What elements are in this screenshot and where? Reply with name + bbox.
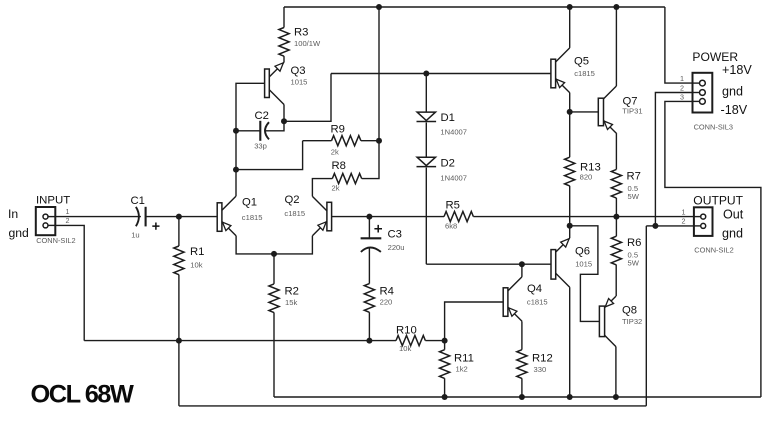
resistor R7 (611, 169, 621, 198)
svg-text:gnd: gnd (722, 227, 743, 241)
resistor R9 (332, 136, 361, 146)
wire R7 bottom to output node (615, 198, 617, 217)
svg-text:CONN-SIL2: CONN-SIL2 (36, 236, 75, 245)
svg-text:820: 820 (580, 173, 593, 182)
capacitor C3 (361, 238, 382, 252)
wire Q6 collector riser (569, 226, 571, 238)
svg-text:gnd: gnd (9, 226, 29, 240)
wire C3 top lead (368, 217, 370, 239)
capacitor C2 (260, 121, 269, 141)
wire Q1 emitter down (236, 236, 274, 254)
svg-text:10k: 10k (190, 261, 202, 270)
wire Q6 base line (426, 263, 551, 265)
wire Q4 collector riser to Q6 base node (521, 264, 523, 277)
wire bottom gnd rail (179, 405, 646, 407)
wire R8 left lead to Q2 collector (312, 179, 332, 197)
junction negative rail / Q6 emitter (567, 394, 573, 400)
junction gnd line / R1 bottom (176, 338, 182, 344)
resistor R5 (444, 212, 473, 222)
wire R12 bottom to negative rail (521, 378, 523, 397)
resistor R12 (517, 350, 527, 379)
wire Q2 base to C3 node and R5 (332, 216, 444, 218)
wire negative supply rail (274, 396, 761, 398)
junction negative rail / R11 (442, 394, 448, 400)
svg-text:OUTPUT: OUTPUT (693, 194, 743, 208)
diode D2 (417, 157, 437, 166)
svg-text:R1: R1 (190, 246, 204, 258)
svg-text:2k: 2k (332, 183, 340, 192)
svg-text:5W: 5W (628, 258, 640, 267)
svg-text:220: 220 (380, 297, 393, 306)
wire R9 left lead (303, 140, 332, 142)
svg-text:R5: R5 (446, 199, 460, 211)
svg-text:D2: D2 (441, 157, 455, 169)
wire R11 bottom to negative rail (444, 378, 446, 397)
svg-text:6k8: 6k8 (445, 221, 457, 230)
transistor Q5 (551, 48, 570, 93)
svg-text:1u: 1u (131, 230, 139, 239)
wire Q1 collector column to Q3 base (236, 83, 265, 196)
junction top rail / R9 column (376, 4, 382, 10)
wire Q8 emitter to negative rail (615, 347, 617, 397)
resistor R13 (565, 157, 575, 186)
junction negative rail / Q8 emitter (613, 394, 619, 400)
svg-text:1: 1 (682, 207, 686, 216)
svg-text:In: In (8, 207, 18, 221)
svg-text:330: 330 (534, 365, 547, 374)
junction R10 right / R11 / Q4 base (442, 338, 448, 344)
svg-text:R8: R8 (332, 160, 346, 172)
svg-text:R11: R11 (454, 352, 474, 364)
transistor Q3 (265, 62, 284, 104)
svg-text:Q2: Q2 (285, 194, 300, 206)
wire R10 node riser to Q4 base (445, 302, 504, 341)
junction top rail / Q7 collector (613, 4, 619, 10)
capacitor C1 (136, 207, 146, 227)
svg-text:Out: Out (723, 207, 744, 221)
wire D2 to Q6 base line (425, 168, 427, 265)
junction R13 / Q6 collector / Q8 path (567, 223, 573, 229)
svg-text:R10: R10 (396, 324, 417, 336)
wire output node to R6 (615, 217, 617, 237)
wire Q7 collector to rail (615, 7, 617, 86)
wire node to C2 left plate (236, 130, 260, 132)
wire Q4 emitter to R12 (521, 321, 523, 349)
svg-text:R4: R4 (380, 285, 394, 297)
svg-text:2: 2 (680, 84, 684, 93)
svg-text:3: 3 (680, 93, 684, 102)
wire R4 bottom lead (368, 312, 370, 340)
svg-text:TIP32: TIP32 (622, 317, 642, 326)
resistor R10 (396, 336, 425, 346)
wire Q6 emitter down to negative rail (569, 287, 571, 397)
svg-text:c1815: c1815 (242, 213, 263, 222)
wire Q7 emitter to R7 (615, 134, 617, 170)
svg-text:POWER: POWER (692, 50, 738, 64)
svg-text:R13: R13 (580, 161, 601, 173)
transistor Q2 (312, 196, 331, 235)
wire gnd node to OUTPUT pin2 (655, 225, 694, 227)
svg-text:R9: R9 (331, 124, 345, 136)
svg-text:33p: 33p (254, 141, 267, 150)
svg-text:R2: R2 (285, 285, 299, 297)
wire R13 bottom to Q6 node (569, 186, 571, 226)
junction R9 right / R8 column (376, 138, 382, 144)
svg-text:1: 1 (66, 207, 70, 216)
wire Q5 collector to rail (569, 7, 571, 48)
wire INPUT pin2 gnd stub (55, 225, 84, 340)
transistor Q8 (599, 296, 616, 346)
diode D1 (417, 112, 437, 121)
svg-text:15k: 15k (285, 298, 297, 307)
svg-text:220u: 220u (388, 243, 405, 252)
wire C2 node to VAS riser (284, 74, 331, 122)
svg-text:10k: 10k (399, 344, 411, 353)
svg-text:Q8: Q8 (622, 304, 637, 316)
wire INPUT pin1 to C1 (55, 216, 141, 218)
transistor Q4 (503, 277, 522, 321)
svg-text:2k: 2k (331, 147, 339, 156)
svg-text:-18V: -18V (721, 103, 748, 117)
svg-text:R7: R7 (627, 170, 641, 182)
wire gnd node to gnd rail riser (646, 225, 655, 227)
junction gnd line / R4 bottom (366, 338, 372, 344)
junction Q6 base / Q4 collector (519, 261, 525, 267)
transistor Q1 (217, 196, 236, 236)
svg-text:1: 1 (680, 74, 684, 83)
resistor R8 (332, 174, 361, 184)
svg-text:gnd: gnd (722, 84, 743, 98)
wire R1 bottom / gnd drop to bottom gnd rail (178, 275, 180, 406)
svg-text:Q4: Q4 (527, 283, 542, 295)
wire Q3 emitter to C2 node (283, 105, 285, 122)
svg-text:Q1: Q1 (242, 197, 257, 209)
svg-text:C2: C2 (255, 110, 269, 122)
connector INPUT CONN-SIL2 (36, 207, 56, 235)
svg-text:TIP31: TIP31 (622, 106, 642, 115)
svg-text:Q6: Q6 (575, 245, 590, 257)
wire R13 top lead (569, 112, 571, 157)
wire C1 to Q1 base (146, 216, 218, 218)
junction diff pair emitters (271, 251, 277, 257)
wire Q2 emitter down (274, 236, 312, 254)
svg-text:OCL 68W: OCL 68W (31, 381, 134, 409)
wire output node to OUTPUT pin1 (616, 216, 694, 218)
svg-text:D1: D1 (441, 112, 455, 124)
wire C2 node stub down to C2 right plate (265, 121, 284, 131)
svg-text:Q5: Q5 (574, 55, 589, 67)
wire POWER pin2 gnd drop (655, 93, 692, 226)
wire R2 bottom to negative rail (273, 313, 275, 398)
wire VAS line to Q5 base (331, 73, 551, 75)
junction Q5 emitter / Q7 base / R13 (567, 109, 573, 115)
wire R9 node to R8 right lead (362, 141, 379, 179)
svg-text:1k2: 1k2 (456, 365, 468, 374)
wire Q6 node to Q8 base path (570, 226, 600, 322)
svg-text:1N4007: 1N4007 (440, 128, 467, 137)
wire R3 bottom to Q3 collector kink (283, 56, 285, 62)
svg-text:c1815: c1815 (284, 209, 305, 218)
junction C2 left / Q1 collector column (233, 128, 239, 134)
svg-text:C1: C1 (131, 195, 145, 207)
connector POWER CONN-SIL3 (693, 73, 713, 113)
wire node to Q7 base (570, 111, 599, 113)
svg-text:c1815: c1815 (574, 69, 595, 78)
wire R9 right lead to node (361, 140, 379, 142)
svg-text:1015: 1015 (291, 77, 308, 86)
junction R9 left / Q1 collector column (233, 167, 239, 173)
resistor R6 (611, 236, 621, 265)
transistor Q7 (598, 86, 617, 134)
wire node to R9 left lead (236, 141, 303, 170)
junction C1 / R1 node (176, 214, 182, 220)
wire R3 top lead (283, 7, 285, 28)
wire R10 right lead to node (425, 340, 444, 342)
svg-text:1N4007: 1N4007 (440, 173, 467, 182)
resistor R1 (174, 246, 184, 275)
plus sign C3 (374, 225, 382, 233)
wire D1 top lead (425, 74, 427, 113)
svg-text:5W: 5W (628, 192, 640, 201)
svg-text:R3: R3 (294, 27, 308, 39)
wire top +18V rail (284, 6, 665, 8)
wire top rail riser to R9/R8 node (378, 7, 380, 141)
junction top rail / Q5 collector (567, 4, 573, 10)
connector OUTPUT CONN-SIL2 (694, 207, 713, 236)
svg-text:R6: R6 (627, 237, 641, 249)
wire R2 top lead (273, 254, 275, 284)
wire -18V feed right edge (665, 101, 761, 397)
wire gnd horizontal to R10 node (84, 340, 396, 342)
resistor R11 (440, 350, 450, 379)
svg-text:1015: 1015 (575, 260, 592, 269)
wire R6 bottom to Q8 collector (615, 265, 617, 296)
resistor R2 (269, 284, 279, 313)
junction Q3 emitter / C2 node (281, 118, 287, 124)
svg-text:INPUT: INPUT (36, 195, 70, 207)
svg-text:C3: C3 (388, 228, 402, 240)
wire gnd rail riser to output gnd (645, 226, 647, 406)
svg-text:R12: R12 (532, 352, 553, 364)
svg-text:CONN-SIL2: CONN-SIL2 (694, 246, 733, 255)
wire C3 bottom to R4 (368, 248, 370, 284)
junction D1 top / VAS line (423, 71, 429, 77)
resistor R3 (279, 28, 289, 57)
wire R5 to output node (473, 216, 616, 218)
wire Q5 emitter to node (569, 93, 571, 112)
wire R1 top lead (178, 217, 180, 246)
junction R7 R6 output node (613, 214, 619, 220)
svg-text:2: 2 (682, 217, 686, 226)
plus sign C1 (152, 223, 159, 230)
svg-text:2: 2 (66, 216, 70, 225)
svg-text:Q3: Q3 (291, 65, 306, 77)
wire +18V riser to POWER pin1 (665, 7, 693, 83)
junction negative rail / R12 (519, 394, 525, 400)
svg-text:100/1W: 100/1W (294, 39, 321, 48)
transistor Q6 (551, 238, 570, 287)
junction C3 top / main line (366, 214, 372, 220)
wire R11 top lead (444, 341, 446, 350)
wire D1 to D2 (425, 123, 427, 158)
svg-text:+18V: +18V (722, 63, 752, 77)
svg-text:c1815: c1815 (527, 297, 548, 306)
junction gnd node at output (652, 223, 658, 229)
resistor R4 (364, 284, 374, 313)
svg-text:CONN-SIL3: CONN-SIL3 (694, 123, 733, 132)
